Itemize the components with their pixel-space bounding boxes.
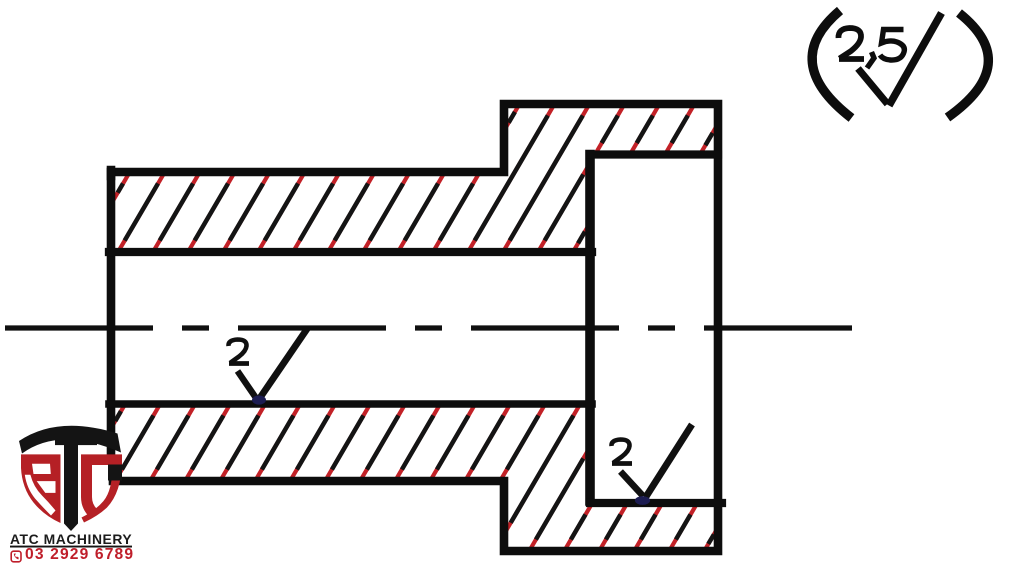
logo T stem	[64, 432, 78, 531]
wire bore bottom line	[109, 400, 592, 408]
wire bore top line	[109, 248, 592, 256]
node blue tip left	[252, 395, 266, 404]
hatch bottom section	[111, 404, 125, 428]
node check mark left	[238, 371, 257, 398]
node surface mark left: digit 2	[228, 328, 308, 401]
logo underline	[10, 546, 132, 548]
wire outer profile of part	[111, 104, 718, 551]
hatch top section	[111, 172, 130, 204]
logo arc (black crescent)	[19, 426, 121, 454]
centerline (horizontal axis)	[5, 325, 856, 330]
comma	[867, 52, 874, 68]
hatch fills (under outlines)	[111, 104, 718, 551]
logo red left wing (A)	[21, 454, 61, 523]
wire recess bottom line	[590, 499, 722, 507]
node general roughness note (2,5) top right	[812, 11, 988, 119]
wire left edge (stops at logo)	[107, 170, 116, 454]
left parenthesis	[812, 11, 851, 119]
node surface mark right: digit 2	[611, 425, 692, 498]
logo red right wing (C)	[81, 454, 122, 517]
node check mark right	[621, 472, 644, 497]
logo phone icon	[11, 551, 21, 562]
logo T crossbar	[55, 433, 97, 446]
logo phone number	[25, 546, 134, 564]
logo ATC shield	[19, 426, 122, 531]
wire recess top line	[590, 150, 718, 158]
digit 2	[838, 28, 861, 59]
right parenthesis	[948, 13, 989, 118]
check mark	[858, 69, 888, 105]
digit 5	[880, 30, 904, 61]
node blue tip right	[635, 496, 650, 505]
logo black square of C	[108, 465, 122, 481]
wire recess wall	[585, 155, 595, 502]
logo wordmark	[10, 531, 132, 547]
